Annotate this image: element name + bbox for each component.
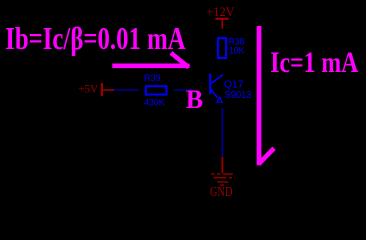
wire emitter to ground	[221, 108, 223, 157]
resistor R38 body	[218, 38, 226, 58]
svg-text:S9013: S9013	[225, 89, 252, 101]
svg-text:10K: 10K	[229, 46, 245, 57]
power port +12V	[206, 4, 235, 29]
svg-text:+5V: +5V	[78, 81, 98, 95]
power port +5V	[78, 81, 102, 96]
svg-text:Ib=Ic/β=0.01 mA: Ib=Ic/β=0.01 mA	[5, 20, 186, 56]
arrow collector current Ic	[258, 26, 274, 165]
svg-text:R39: R39	[144, 73, 161, 83]
arrow base current Ib	[112, 53, 189, 68]
wire +5V to R39	[114, 89, 139, 91]
wire +5V stub	[101, 89, 114, 91]
svg-text:430K: 430K	[144, 97, 165, 108]
svg-text:B: B	[186, 85, 203, 114]
transistor Q17	[210, 74, 223, 103]
resistor R39 body	[146, 86, 167, 94]
svg-text:GND: GND	[210, 184, 233, 199]
svg-text:Ic=1 mA: Ic=1 mA	[270, 47, 359, 79]
wire R39 to base	[174, 89, 191, 91]
wire ground lead red	[221, 157, 223, 173]
svg-text:+12V: +12V	[206, 4, 235, 19]
ground symbol GND	[211, 174, 233, 185]
